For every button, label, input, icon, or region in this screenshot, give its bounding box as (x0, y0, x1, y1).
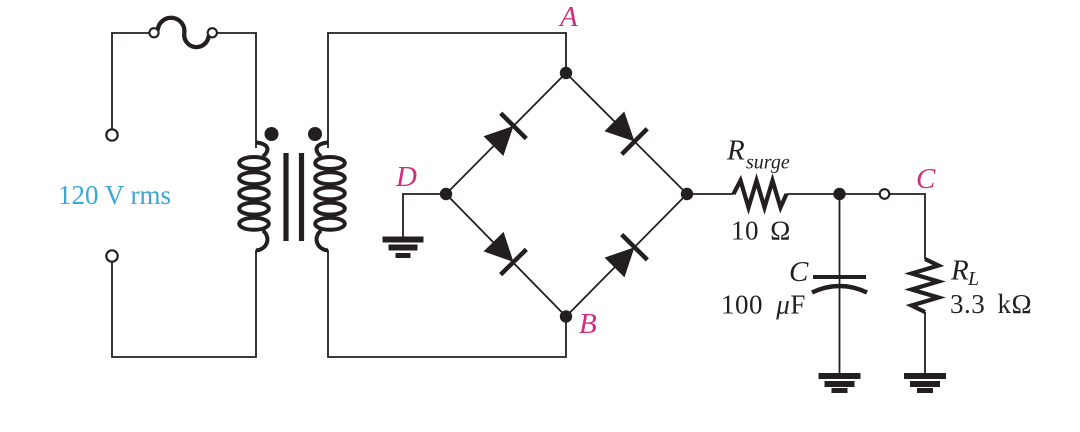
node B (560, 310, 572, 322)
diode D1 top-left (481, 113, 527, 159)
open circle terminal C (880, 189, 890, 199)
node filter (833, 188, 845, 200)
capacitor C bottom plate (812, 286, 867, 293)
capacitor C top plate (813, 275, 866, 279)
svg-text:C: C (916, 163, 936, 195)
svg-text:R: R (726, 135, 745, 167)
wire bridge arm A-right (566, 73, 687, 194)
terminal upper open circle (106, 129, 117, 140)
resistor R surge (734, 181, 787, 208)
wire bridge to R surge (687, 193, 734, 195)
transformer phasing dot right (308, 127, 322, 141)
diode D3 bottom-left (481, 229, 527, 275)
wire primary top loop right (217, 33, 256, 148)
wire secondary bottom to bridge (328, 250, 566, 357)
svg-text:L: L (967, 268, 979, 290)
transformer core (286, 153, 302, 241)
svg-text:B: B (579, 308, 597, 340)
transformer phasing dot left (265, 127, 279, 141)
svg-text:120 V rms: 120 V rms (58, 180, 171, 210)
wire secondary top to bridge (328, 33, 566, 148)
wire bridge arm D-A (446, 73, 566, 194)
ground below capacitor (819, 376, 861, 391)
svg-text:A: A (558, 1, 578, 33)
svg-text:D: D (395, 161, 417, 193)
diode D4 bottom-right (602, 235, 648, 281)
capacitor branch wire (839, 194, 841, 373)
fuse F1 (149, 18, 217, 47)
svg-text:3.3 kΩ: 3.3 kΩ (950, 289, 1032, 319)
wire R surge to node (787, 193, 885, 195)
wire RL to ground (924, 312, 926, 373)
wire primary bottom loop (112, 250, 256, 357)
node D (440, 188, 452, 200)
node A (560, 67, 572, 79)
svg-text:R: R (950, 255, 969, 287)
wire D to ground (403, 194, 446, 237)
svg-text:10 Ω: 10 Ω (731, 216, 791, 246)
svg-text:100 μF: 100 μF (721, 290, 806, 320)
transformer T1 primary coil (239, 143, 269, 251)
node right of bridge (681, 188, 693, 200)
wire node C corner down (890, 194, 925, 259)
wire bridge arm B-right (566, 194, 687, 317)
svg-text:C: C (789, 256, 809, 288)
ground at D (383, 240, 424, 256)
ground below RL (904, 376, 946, 391)
wire primary top loop left (112, 33, 150, 134)
diode D2 top-right (602, 109, 648, 155)
transformer T1 secondary coil (315, 143, 345, 251)
svg-text:surge: surge (746, 152, 790, 174)
wire bridge arm D-B (446, 194, 566, 317)
resistor RL (912, 259, 939, 312)
terminal lower open circle (106, 250, 117, 261)
